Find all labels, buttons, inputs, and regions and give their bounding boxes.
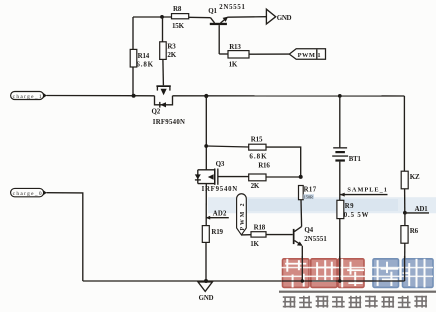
wire R3 to Q2 gate [162, 59, 165, 85]
svg-text:GND: GND [199, 295, 214, 302]
resistor R16 [249, 174, 266, 181]
svg-text:R15: R15 [251, 135, 263, 143]
node AD1 (net label with arrow) [403, 206, 429, 215]
wire PWM_2 to R18 [241, 234, 251, 236]
wire R9 to bottom rail [339, 219, 341, 281]
svg-text:R18: R18 [254, 224, 266, 232]
svg-text:2N5551: 2N5551 [219, 4, 245, 11]
value label R17 (highlighted) [303, 194, 314, 199]
wire R19 to bottom rail [205, 242, 207, 281]
watermark divider line [279, 291, 436, 293]
wire AD1 to R6 [404, 213, 406, 226]
svg-text:KZ: KZ [410, 173, 420, 181]
svg-text:Q4: Q4 [304, 226, 313, 234]
wire R16 to node [266, 176, 301, 178]
svg-text:150R: 150R [304, 194, 313, 199]
port PWM_2 [237, 194, 247, 235]
svg-text:GND: GND [277, 14, 292, 22]
svg-text:R6: R6 [410, 227, 419, 235]
wire Q3 branch vertical [205, 96, 207, 170]
wire bottom rail [83, 280, 405, 282]
wire R3 top lead [162, 17, 164, 42]
wire main rail right of Q2 [173, 95, 405, 97]
wire charge_0 to left drop [47, 193, 83, 281]
svg-text:R9: R9 [345, 203, 354, 210]
port PWM_1 [289, 49, 325, 60]
wire BT1 to R9 [339, 162, 341, 201]
svg-text:R17: R17 [304, 187, 317, 194]
battery BT1 [332, 147, 361, 163]
wire R13 to PWM_1 [249, 53, 289, 55]
wire Q4 emitter down [301, 246, 303, 281]
wire R15 to right corner down [266, 147, 301, 177]
wire right vertical (rail to KZ) [403, 96, 405, 171]
wire charge_1 rail [47, 95, 155, 97]
svg-text:R3: R3 [167, 43, 176, 51]
resistor R18 [251, 232, 266, 237]
transistor Q2 [152, 85, 186, 126]
wire top rail [133, 16, 172, 18]
node junction R15 [204, 144, 208, 148]
wire R14 bottom lead [132, 67, 134, 96]
svg-text:R19: R19 [211, 228, 223, 236]
node R3 top junction [160, 15, 164, 19]
svg-text:Q2: Q2 [152, 108, 161, 116]
svg-text:Q3: Q3 [216, 160, 225, 168]
svg-text:2K: 2K [251, 182, 260, 190]
wire R8 to Q1 [189, 16, 211, 18]
node junction Q4 emitter [301, 279, 304, 282]
resistor R9 [337, 200, 344, 218]
svg-text:6.8K: 6.8K [136, 61, 153, 69]
svg-text:Q1: Q1 [208, 7, 217, 15]
svg-text:6.8K: 6.8K [249, 153, 267, 161]
svg-text:R14: R14 [138, 52, 150, 60]
node junction R9 [338, 279, 341, 282]
svg-text:IRF9540N: IRF9540N [153, 119, 186, 126]
wire R6 to bottom rail [404, 243, 406, 281]
watermark slogan ShePinHeTianXianSheJiZhuanJia [283, 296, 427, 308]
wire Q3 gate to R16 [219, 176, 249, 178]
svg-text:SAMPLE_1: SAMPLE_1 [347, 186, 387, 193]
wire Q3 to R19 [205, 184, 207, 226]
watermark gloss stripes [281, 267, 433, 269]
highlight band watermark [208, 197, 436, 213]
port charge_1 [11, 92, 47, 101]
resistor KZ [401, 171, 408, 189]
wire overlays crossing watermark [282, 256, 405, 283]
transistor Q1 [208, 4, 245, 54]
ground GND (power port, right-pointing) [266, 9, 291, 24]
node junction GND [204, 279, 208, 283]
wire left vertical (top rail to charge_1 rail) [132, 17, 134, 49]
svg-text:AD1: AD1 [415, 206, 429, 213]
svg-text:15K: 15K [172, 22, 185, 30]
resistor R8 [172, 14, 189, 19]
svg-text:IRF9540N: IRF9540N [202, 186, 238, 193]
svg-text:2K: 2K [167, 51, 176, 59]
node junction BT1 branch [338, 94, 342, 98]
svg-text:0.5 5W: 0.5 5W [344, 212, 369, 219]
wire Q1 emitter to GND [227, 16, 266, 19]
svg-text:R8: R8 [173, 5, 182, 13]
resistor R17 [299, 186, 304, 200]
wire Q1 base to R13 [219, 53, 228, 55]
resistor R14 [130, 49, 137, 67]
svg-text:AD2: AD2 [213, 211, 227, 218]
wire to R15 [206, 146, 248, 147]
svg-text:2N5551: 2N5551 [304, 236, 327, 243]
port charge_0 [11, 188, 47, 197]
transistor Q3 [195, 160, 238, 193]
wire battery branch [339, 96, 341, 147]
ground GND (bottom) [198, 282, 214, 302]
node junction R14/rail [132, 94, 136, 98]
watermark text YiDiTuoPeiXun [281, 259, 433, 288]
resistor R6 [401, 226, 408, 244]
resistor R13 [228, 51, 249, 58]
transistor Q4 [293, 226, 328, 246]
resistor R15 [249, 144, 266, 150]
svg-text:BT1: BT1 [349, 156, 362, 163]
svg-text:charge_0: charge_0 [13, 191, 42, 197]
svg-text:R16: R16 [258, 161, 270, 169]
svg-text:R13: R13 [229, 43, 241, 51]
node AD2 (net label with arrow) [206, 211, 229, 220]
svg-text:1K: 1K [229, 60, 238, 68]
wire KZ to AD1 [404, 189, 406, 213]
svg-text:1K: 1K [250, 240, 259, 248]
node SAMPLE_1 (net label) [340, 186, 388, 196]
node junction Q3 branch [204, 94, 208, 98]
wire R18 to Q4 base [266, 234, 293, 236]
svg-text:charge_1: charge_1 [13, 94, 42, 100]
node junction R16/R17 [299, 175, 303, 179]
resistor R19 [202, 226, 209, 243]
resistor R3 [160, 42, 167, 60]
wire R17 to Q4 collector [300, 200, 303, 227]
